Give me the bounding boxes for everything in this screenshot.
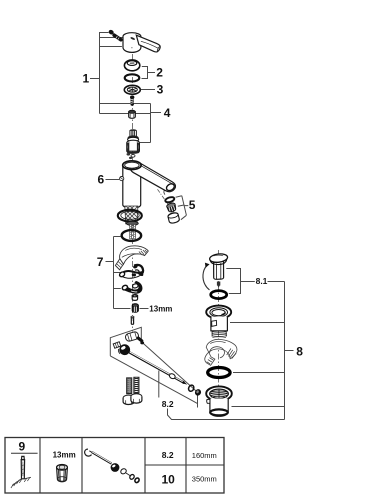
bottom nut xyxy=(126,221,138,225)
bracket 7 xyxy=(97,237,131,309)
centerline upper column xyxy=(132,54,134,332)
rod end o-ring xyxy=(188,384,195,392)
svg-text:10: 10 xyxy=(162,472,176,486)
faucet body top ring xyxy=(123,161,141,170)
spout xyxy=(130,162,175,191)
nut n1 xyxy=(129,110,136,118)
bracket 4 xyxy=(140,104,171,143)
wavy washer xyxy=(205,339,237,365)
tailpiece xyxy=(206,386,232,416)
svg-text:8: 8 xyxy=(296,344,303,358)
mousseur xyxy=(166,202,177,213)
faucet body and spout xyxy=(123,162,176,208)
black o-ring top xyxy=(211,291,227,299)
svg-text:8.1: 8.1 xyxy=(256,276,268,286)
cartridge xyxy=(127,129,140,159)
black o-ring bottom xyxy=(208,368,230,378)
indicator dot xyxy=(130,37,135,41)
threaded shank with flange xyxy=(114,190,142,239)
aerator parts 5 xyxy=(158,189,196,224)
svg-text:4: 4 xyxy=(164,106,171,120)
screw s2 xyxy=(130,96,134,106)
nut 13mm drawing in table xyxy=(57,465,68,482)
rod assembly box xyxy=(110,327,197,407)
ring 3 xyxy=(124,83,163,97)
rod clamp xyxy=(113,331,144,355)
svg-text:7: 7 xyxy=(97,255,104,269)
svg-text:1: 1 xyxy=(83,72,90,86)
small nut left xyxy=(113,342,121,349)
svg-text:9: 9 xyxy=(19,440,26,454)
nut n2 xyxy=(132,294,137,300)
screw s3 xyxy=(131,316,134,324)
label 8.2 xyxy=(159,371,285,420)
o-ring 2b xyxy=(125,74,140,81)
bracket 5 xyxy=(176,196,189,220)
drain plug xyxy=(206,306,231,338)
svg-text:6: 6 xyxy=(98,172,105,186)
rod 10 drawing in table xyxy=(85,449,140,483)
svg-text:13mm: 13mm xyxy=(149,304,172,313)
ball joint xyxy=(119,344,130,355)
svg-text:5: 5 xyxy=(189,198,196,212)
table xyxy=(5,438,224,494)
svg-text:8.2: 8.2 xyxy=(162,450,174,460)
svg-text:2: 2 xyxy=(156,66,163,80)
saddle bracket 7c xyxy=(119,264,144,278)
svg-text:160mm: 160mm xyxy=(192,451,217,460)
rod end nut xyxy=(194,388,202,397)
callout 1 bracket xyxy=(83,32,151,114)
flange ring xyxy=(118,210,142,222)
bracket 8 xyxy=(230,282,303,420)
lever arm xyxy=(136,35,160,52)
gasket xyxy=(165,196,175,203)
large o-ring 7a xyxy=(122,230,142,241)
bracket 8.1 xyxy=(226,269,284,294)
svg-text:13mm: 13mm xyxy=(53,450,76,459)
handle screw xyxy=(108,29,121,40)
centerline drain column xyxy=(218,250,220,416)
tool 9 drawing xyxy=(11,456,31,488)
clamp 7d xyxy=(122,281,143,294)
curved wedge 7b xyxy=(115,246,148,270)
lever handle body xyxy=(123,33,160,53)
svg-text:3: 3 xyxy=(157,83,164,97)
studs xyxy=(130,225,132,239)
nut 13mm xyxy=(132,303,173,313)
mounting studs with nuts xyxy=(123,377,142,404)
cap ring 2a xyxy=(124,60,139,71)
svg-text:8.2: 8.2 xyxy=(162,399,174,409)
callout 6 xyxy=(98,172,124,186)
pop-up knob 8.1 xyxy=(203,253,228,290)
bracket 2 xyxy=(142,66,164,80)
svg-text:350mm: 350mm xyxy=(192,475,217,484)
lever rod xyxy=(130,352,188,384)
housing xyxy=(167,212,180,224)
